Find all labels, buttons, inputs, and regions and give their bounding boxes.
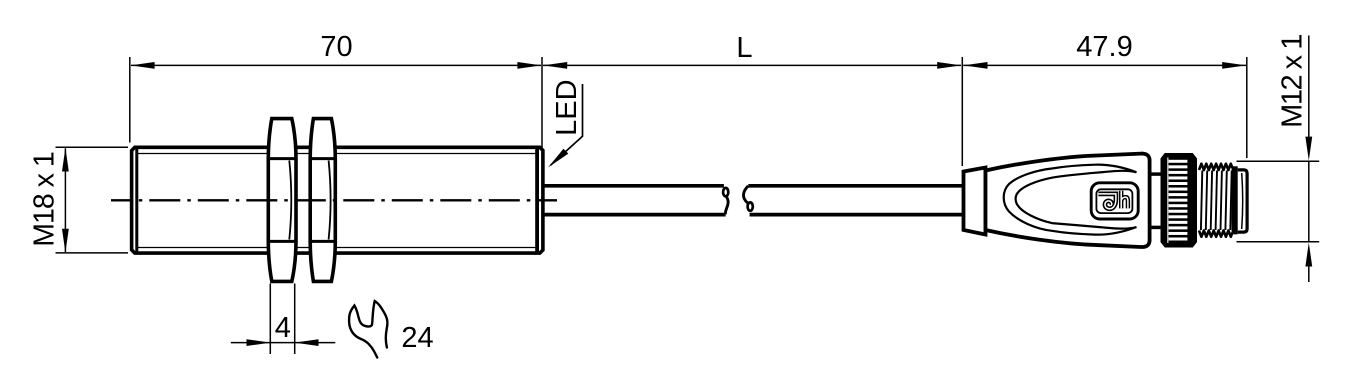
svg-text:LED: LED (551, 79, 583, 135)
connector tip (1232, 166, 1248, 234)
dim line L (543, 32, 961, 69)
dim line M12 top (1277, 35, 1313, 282)
connector strain relief (964, 168, 986, 235)
svg-text:47.9: 47.9 (1076, 31, 1132, 63)
sensor body M18 barrel (132, 147, 543, 253)
cable break right (748, 202, 753, 210)
svg-text:M12 x 1: M12 x 1 (1277, 35, 1309, 128)
svg-text:L: L (736, 32, 752, 64)
body right end face line (535, 149, 539, 253)
svg-text:4: 4 (275, 312, 291, 344)
M12 thread (1199, 164, 1232, 237)
thread root line bottom (138, 247, 536, 249)
hex nut 1 (268, 119, 296, 282)
dim L/47.9 shared extension line (961, 57, 963, 166)
knurled coupling ring (1161, 154, 1197, 248)
hex nut 2 (310, 119, 335, 282)
body left chamfer line (135, 149, 138, 253)
thread root line top (138, 153, 536, 155)
connector molded body (986, 154, 1150, 247)
P+F logo box (1091, 183, 1138, 219)
cable break left (723, 188, 728, 196)
dim 4 extension lines (269, 284, 271, 355)
cable right segment (743, 186, 963, 215)
svg-text:70: 70 (320, 31, 352, 63)
centerline (111, 199, 557, 201)
connector neck (1150, 172, 1162, 176)
wrench symbol SW24 (349, 301, 387, 358)
dim M18 extension lines (56, 146, 129, 148)
dim line 70 (131, 31, 542, 69)
dim 47.9 extension line right (1246, 57, 1248, 158)
dim line 47.9 (963, 31, 1246, 69)
dim line 4 (231, 312, 335, 346)
dim line M18 (28, 148, 69, 253)
dim M12 extension lines (1237, 160, 1320, 162)
svg-text:24: 24 (401, 322, 433, 354)
LED label (548, 79, 583, 167)
dim 70/L shared extension line (541, 57, 543, 150)
dim line M12 bottom (1308, 266, 1310, 282)
P+F glyph (1098, 191, 1128, 209)
cable left segment (543, 186, 728, 215)
dim 70 extension line left (129, 57, 131, 143)
svg-text:M18 x 1: M18 x 1 (28, 152, 60, 247)
connector grip groove band (1004, 165, 1137, 235)
